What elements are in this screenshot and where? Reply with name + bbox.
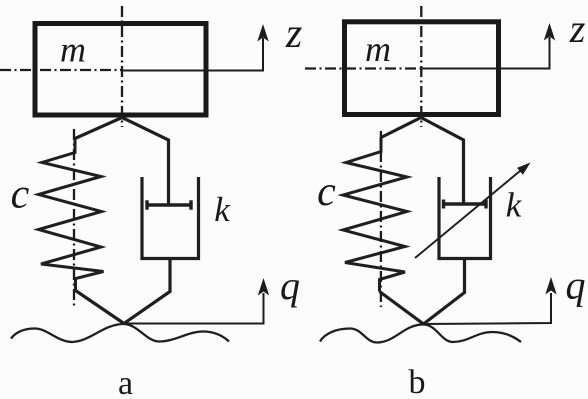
svg-text:q: q — [280, 263, 300, 308]
label c (system b) — [317, 169, 336, 215]
horizontal centerline (dash-dot) through mass b — [305, 67, 421, 69]
svg-text:k: k — [214, 190, 231, 229]
svg-text:a: a — [118, 365, 133, 399]
svg-text:k: k — [506, 186, 523, 225]
spring centerline (dash-dot, system b) — [380, 131, 382, 307]
damper k (system b) piston — [444, 200, 487, 209]
svg-text:b: b — [409, 364, 426, 399]
q reference line (system a) — [124, 293, 264, 324]
svg-text:c: c — [317, 169, 336, 215]
spring c (system a) zigzag — [39, 139, 104, 291]
variable-damper diagonal arrow (system b) — [415, 166, 526, 258]
spring lower link to wheel contact point (system a) — [76, 291, 125, 324]
label z (system b) — [569, 6, 586, 51]
road surface wavy line (system b) — [320, 325, 521, 343]
label c (system a) — [11, 172, 30, 218]
horizontal centerline (dash-dot) through mass a — [0, 69, 122, 71]
label k (system b) — [506, 186, 523, 225]
top V link from mass a to spring and damper — [75, 118, 169, 206]
label a (system a caption) — [118, 365, 133, 399]
svg-text:z: z — [569, 6, 586, 51]
q axis arrowhead (system a) — [258, 278, 269, 296]
spring lower link to wheel contact point (system b) — [380, 292, 424, 325]
top V link from mass b to spring and damper — [381, 118, 464, 205]
q axis arrowhead (system b) — [545, 277, 556, 295]
label k (system a) — [214, 190, 231, 229]
label z (system a) — [285, 11, 302, 57]
vertical centerline (dash-dot) through mass a — [121, 6, 123, 127]
damper k (system a) cylinder — [142, 177, 199, 259]
svg-text:z: z — [285, 11, 302, 57]
spring c (system b) zigzag — [343, 138, 407, 292]
damper k (system b) cylinder — [439, 177, 491, 259]
z axis arrowhead (system a) — [257, 24, 268, 42]
damper k (system a) piston — [147, 200, 191, 209]
damper k (system a) lower rod — [124, 259, 170, 324]
spring centerline (dash-dot, system a) — [73, 129, 75, 306]
svg-text:q: q — [566, 263, 586, 308]
road surface wavy line (system a) — [11, 324, 229, 342]
z reference line (solid) from mass a center to z axis — [122, 38, 263, 71]
q reference line (system b) — [424, 293, 552, 324]
damper k (system b) lower rod — [424, 259, 465, 325]
z axis arrowhead (system b) — [544, 23, 555, 41]
svg-text:c: c — [11, 172, 30, 218]
vertical centerline (dash-dot) through mass b — [420, 6, 422, 127]
mass m (system a) body rectangle — [35, 24, 206, 116]
z reference line (solid) from mass b center to z axis — [421, 37, 549, 69]
label q (system b) — [566, 263, 586, 308]
svg-text:m: m — [365, 29, 391, 69]
mass m (system b) body rectangle — [345, 22, 499, 115]
label q (system a) — [280, 263, 300, 308]
label m (system a) — [60, 30, 86, 70]
variable-damper arrowhead (system b) — [517, 163, 531, 175]
svg-text:m: m — [60, 30, 86, 70]
label b (system b caption) — [409, 364, 426, 399]
label m (system b) — [365, 29, 391, 69]
